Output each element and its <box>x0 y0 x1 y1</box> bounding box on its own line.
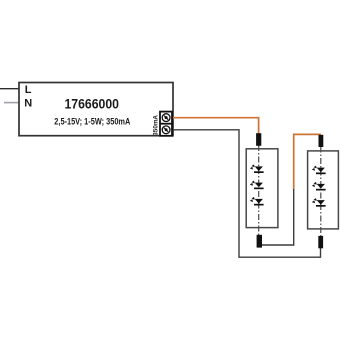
svg-text:2,5-15V; 1-5W; 350mA: 2,5-15V; 1-5W; 350mA <box>54 117 130 127</box>
svg-text:350mA: 350mA <box>153 115 160 136</box>
svg-text:17666000: 17666000 <box>65 96 120 112</box>
svg-text:N: N <box>24 98 32 110</box>
svg-text:L: L <box>25 84 32 96</box>
